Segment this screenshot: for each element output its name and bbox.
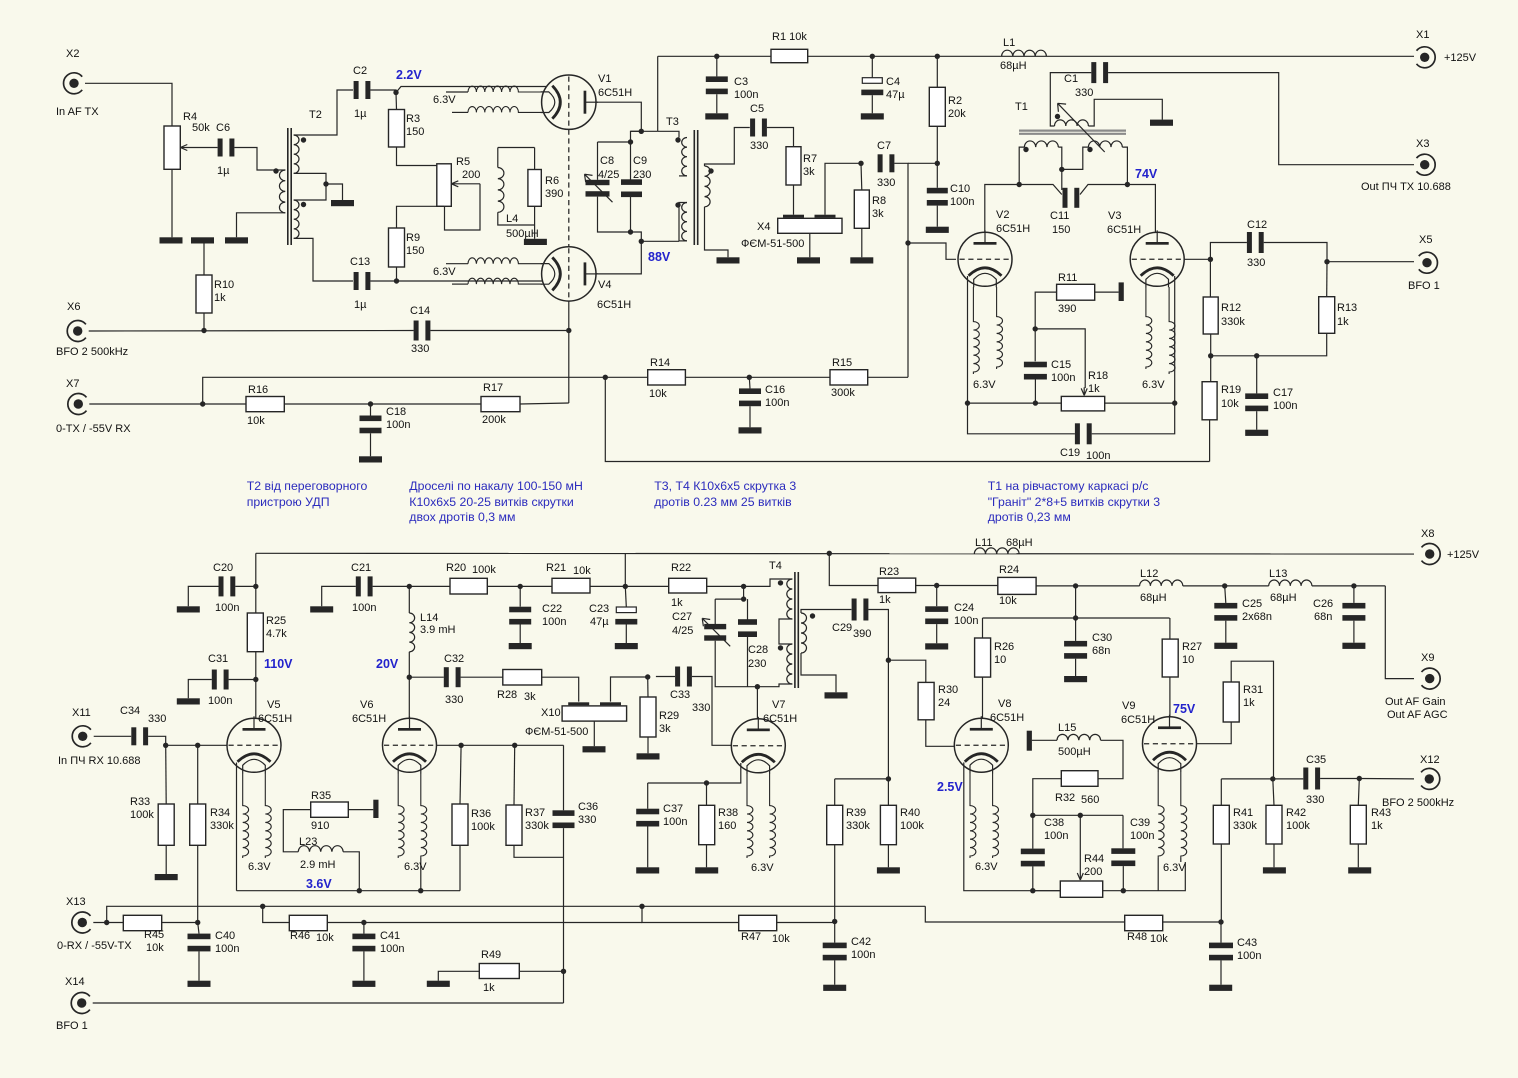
wire long bottom line	[605, 377, 1209, 461]
wire C36 bottom to X14 bus	[563, 828, 565, 1003]
wire X14 bus	[93, 1002, 564, 1004]
capacitor C19	[1075, 423, 1092, 444]
wire C25 to ground	[1225, 621, 1227, 643]
junction rail R2	[935, 54, 940, 59]
junction C17 top	[1254, 353, 1259, 358]
svg-text:C11: C11	[1050, 210, 1069, 222]
wire C7 right down to R15	[894, 163, 908, 377]
ground R49	[427, 981, 450, 987]
ground R40	[877, 867, 900, 873]
junction C30	[1073, 615, 1078, 620]
capacitor C11	[1063, 188, 1080, 208]
ground C25	[1214, 643, 1237, 649]
svg-text:R43: R43	[1371, 807, 1391, 819]
junction cathode rail left	[965, 400, 970, 405]
svg-text:C33: C33	[670, 689, 690, 701]
wire T2 sec upper bottom to tap	[294, 173, 326, 184]
inductor L14	[409, 613, 414, 652]
wire node to R20	[409, 585, 450, 587]
svg-text:2.5V: 2.5V	[937, 780, 963, 794]
svg-text:V3: V3	[1108, 210, 1121, 222]
wire T4 left windings series link	[779, 619, 792, 644]
svg-text:"Граніт" 2*8+5 витків скрутки: "Граніт" 2*8+5 витків скрутки 3	[988, 495, 1161, 509]
junction R37 top	[512, 743, 517, 748]
wire node A to T3 top	[631, 131, 658, 142]
junction R33 top	[163, 743, 168, 748]
svg-text:230: 230	[748, 658, 766, 670]
wire C38/R44/C39 top rail	[1033, 814, 1123, 816]
capacitor C10	[927, 188, 948, 206]
ground C41	[352, 981, 375, 987]
triode V3 (6C51H)	[1130, 230, 1184, 287]
wire T2 primary top lead	[272, 169, 285, 171]
svg-text:1k: 1k	[1088, 383, 1100, 395]
wire rail to C3	[716, 56, 718, 76]
wire T4 right bottom to ground	[801, 653, 836, 692]
svg-text:200: 200	[1084, 866, 1102, 878]
svg-text:R36: R36	[471, 808, 491, 820]
svg-text:2.9 mH: 2.9 mH	[300, 859, 336, 871]
wire to C25	[1225, 586, 1226, 603]
wire node to R29	[647, 677, 649, 697]
wiper arrow R4	[180, 145, 217, 151]
svg-text:330: 330	[1306, 794, 1324, 806]
junction V6 heater bus	[418, 888, 423, 893]
wire C14 to grid line	[430, 330, 568, 332]
svg-text:10k: 10k	[146, 942, 164, 954]
inductor L15	[1057, 734, 1101, 740]
svg-text:R28: R28	[497, 689, 517, 701]
svg-text:R16: R16	[248, 384, 268, 396]
svg-text:C22: C22	[542, 603, 562, 615]
wire node to C16	[748, 377, 751, 388]
svg-text:100n: 100n	[950, 196, 974, 208]
svg-text:100n: 100n	[1044, 830, 1068, 842]
junction C27/C28 top	[741, 596, 746, 601]
svg-text:330k: 330k	[1221, 316, 1245, 328]
svg-text:10k: 10k	[772, 933, 790, 945]
wire line to R27	[1169, 618, 1171, 639]
wire R48 to node	[1163, 921, 1221, 923]
wire C40 to ground	[198, 951, 200, 980]
svg-text:3k: 3k	[524, 691, 536, 703]
capacitor C41	[352, 934, 375, 952]
junction C24	[934, 583, 939, 588]
svg-text:4/25: 4/25	[672, 625, 693, 637]
svg-text:110V: 110V	[264, 657, 293, 671]
svg-text:C3: C3	[734, 76, 748, 88]
wire rail to C11 left	[1019, 185, 1062, 195]
wire V3 grid out	[1185, 258, 1211, 260]
resistor R13	[1319, 297, 1335, 334]
junction C7/R8	[858, 161, 863, 166]
junction R49 node	[561, 969, 566, 974]
wire R13 bottom link	[1211, 333, 1327, 356]
junction C32	[407, 675, 412, 680]
wire L14 node to C32	[409, 676, 444, 678]
svg-text:пристрою УДП: пристрою УДП	[247, 495, 330, 509]
capacitor C33	[675, 667, 692, 687]
wire R32 left down	[1033, 779, 1062, 816]
svg-text:C9: C9	[633, 155, 647, 167]
T3 lower-left winding	[682, 203, 687, 241]
inductor L13	[1269, 580, 1312, 586]
capacitor C36	[553, 810, 575, 828]
wire C30 to ground	[1075, 659, 1077, 676]
svg-text:L1: L1	[1003, 37, 1015, 49]
wire C27 bottom rail	[715, 641, 757, 687]
wire node to R13	[1326, 262, 1328, 297]
wiper arrow R18	[1081, 387, 1087, 395]
svg-text:R25: R25	[266, 615, 286, 627]
svg-text:R44: R44	[1084, 853, 1104, 865]
wire to C38	[1032, 815, 1034, 848]
resistor R11	[1057, 284, 1095, 300]
wire V8 cathode to 2.5V bus	[964, 762, 1061, 890]
wire C22 to ground	[519, 625, 521, 644]
wire to R37	[513, 745, 516, 805]
svg-text:R31: R31	[1243, 684, 1263, 696]
svg-text:C7: C7	[877, 140, 891, 152]
ground C43	[1209, 985, 1232, 991]
svg-text:330: 330	[411, 343, 429, 355]
capacitor C37	[636, 809, 659, 827]
svg-text:100n: 100n	[1130, 830, 1154, 842]
junction T1 center tap	[1059, 167, 1064, 172]
svg-text:C42: C42	[851, 936, 871, 948]
svg-text:R2: R2	[948, 95, 962, 107]
connector X1	[1417, 47, 1436, 68]
transformer T1 core	[1019, 131, 1126, 134]
svg-text:4.7k: 4.7k	[266, 628, 287, 640]
triode V1 (6C51H)	[541, 75, 598, 129]
svg-text:3k: 3k	[872, 208, 884, 220]
junction R10 bottom	[201, 328, 206, 333]
phase dot T4 lower	[778, 645, 783, 650]
wire R2 bottom	[936, 126, 938, 163]
svg-text:In ПЧ RX 10.688: In ПЧ RX 10.688	[58, 755, 141, 767]
svg-text:1µ: 1µ	[217, 165, 230, 177]
wire to R18 wiper	[1035, 329, 1085, 388]
wire to C41	[363, 923, 365, 934]
wire R28 to X10	[542, 677, 579, 701]
svg-text:560: 560	[1081, 794, 1099, 806]
svg-text:T1: T1	[1015, 101, 1028, 113]
phase dot T2 primary	[273, 168, 278, 173]
ground C22	[509, 643, 532, 649]
wire R46 to C41	[327, 922, 364, 924]
svg-text:10: 10	[994, 654, 1006, 666]
svg-text:390: 390	[1058, 303, 1076, 315]
svg-text:X3: X3	[1416, 138, 1429, 150]
wire V2 plate rail	[985, 185, 1019, 233]
svg-text:C36: C36	[578, 801, 598, 813]
junction C38 top	[1030, 813, 1035, 818]
svg-text:330: 330	[1075, 87, 1093, 99]
wire C2 to node	[370, 90, 396, 93]
svg-text:230: 230	[633, 169, 651, 181]
svg-text:BFO 1: BFO 1	[56, 1020, 88, 1032]
heater stub V1 bottom	[452, 111, 468, 113]
svg-text:Т1 на рівчастому каркасі р/с: Т1 на рівчастому каркасі р/с	[988, 479, 1149, 493]
svg-text:+125V: +125V	[1447, 549, 1480, 561]
junction R42/R31	[1270, 776, 1275, 781]
svg-text:100n: 100n	[215, 602, 239, 614]
svg-text:R7: R7	[803, 153, 817, 165]
wire C35 to X12 node	[1320, 778, 1359, 780]
wire T4 node to cap rail	[743, 586, 745, 599]
resistor R26	[975, 638, 991, 677]
svg-text:R1 10k: R1 10k	[772, 31, 807, 43]
resistor R31	[1223, 682, 1239, 722]
svg-text:1k: 1k	[483, 982, 495, 994]
resistor R18 (pot)	[1061, 396, 1104, 411]
wire C8/C9 top rail	[598, 141, 631, 143]
capacitor C28	[738, 619, 757, 637]
triode V8 (6C51H)	[954, 716, 1008, 773]
svg-text:R12: R12	[1221, 302, 1241, 314]
svg-text:68µH: 68µH	[1270, 592, 1297, 604]
ground C40	[188, 981, 211, 987]
phase dot T4 upper	[778, 580, 783, 585]
wire C31 to node	[229, 679, 256, 681]
svg-text:100k: 100k	[130, 809, 154, 821]
ground C31	[177, 698, 200, 704]
wire R49 left to ground	[438, 971, 479, 980]
junction 2.2V node	[393, 90, 398, 95]
svg-text:R19: R19	[1221, 384, 1241, 396]
svg-text:100n: 100n	[380, 943, 404, 955]
svg-text:100k: 100k	[1286, 820, 1310, 832]
wire R38 to ground	[706, 845, 708, 868]
resistor R14	[648, 370, 686, 385]
svg-text:330: 330	[148, 713, 166, 725]
resistor R22	[669, 578, 707, 593]
resistor R35	[311, 802, 349, 817]
resistor R2	[929, 87, 945, 126]
svg-text:T4: T4	[769, 560, 782, 572]
wire L15 to R32	[1098, 740, 1123, 778]
wire R9 bottom	[396, 267, 398, 281]
junction T2 center tap	[323, 181, 328, 186]
svg-text:100n: 100n	[1051, 372, 1075, 384]
wire rail to C4	[871, 56, 873, 77]
wire V9 heater left down	[1157, 858, 1159, 891]
wire L14 to V6 plate	[408, 652, 410, 719]
wire tap down to C11 node	[1061, 169, 1063, 190]
junction C21/L14	[407, 584, 412, 589]
wire node to L12	[1076, 585, 1140, 587]
wire node to R8	[860, 163, 863, 190]
ground C10	[926, 227, 949, 233]
wire R42 to ground	[1273, 844, 1275, 867]
wire rail drop to T3/V1 node	[657, 56, 659, 131]
svg-text:BFO 1: BFO 1	[1408, 280, 1440, 292]
triode V5 (6C51H)	[227, 716, 281, 773]
contact bar near V8	[1027, 731, 1032, 751]
svg-text:6.3V: 6.3V	[433, 94, 456, 106]
svg-text:330: 330	[692, 702, 710, 714]
svg-text:68n: 68n	[1314, 611, 1332, 623]
wire bus to V9 heater right	[1123, 862, 1185, 891]
wire riser to bias line	[203, 377, 569, 404]
resistor R4 (pot)	[164, 126, 180, 169]
svg-text:1k: 1k	[214, 292, 226, 304]
resistor R3	[389, 110, 405, 148]
capacitor C14	[414, 321, 431, 341]
svg-text:6C51H: 6C51H	[763, 713, 797, 725]
wire cathode rail right part	[1105, 402, 1175, 404]
svg-text:75V: 75V	[1173, 702, 1196, 716]
connector X11	[72, 726, 91, 747]
resistor R6	[528, 170, 541, 207]
junction C15 rail	[1033, 400, 1038, 405]
svg-text:L11: L11	[975, 537, 993, 549]
wire C8 bottom rail	[598, 197, 631, 232]
svg-text:V1: V1	[598, 73, 611, 85]
svg-text:6C51H: 6C51H	[1121, 714, 1155, 726]
heater lead V8 right	[993, 773, 999, 858]
junction C41	[361, 920, 366, 925]
wire to R41	[1220, 779, 1222, 805]
wire X2 to R4	[85, 83, 172, 126]
svg-text:R41: R41	[1233, 807, 1253, 819]
junction R46 riser	[260, 904, 265, 909]
ground R4	[160, 237, 183, 243]
svg-text:1k: 1k	[1371, 820, 1383, 832]
svg-text:68µH: 68µH	[1006, 537, 1033, 549]
connector X8	[1422, 544, 1441, 565]
resistor R28	[503, 670, 542, 686]
svg-text:C43: C43	[1237, 937, 1257, 949]
svg-text:C18: C18	[386, 406, 406, 418]
capacitor C30	[1064, 641, 1087, 659]
junction rail C3	[714, 54, 719, 59]
svg-text:T3: T3	[666, 116, 679, 128]
junction V2 grid feed	[905, 240, 910, 245]
wire R35/L23 left link	[283, 810, 310, 852]
resistor R23	[878, 578, 916, 593]
wire R15 right	[868, 376, 908, 378]
svg-text:X5: X5	[1419, 234, 1432, 246]
svg-text:R30: R30	[938, 684, 958, 696]
svg-text:C41: C41	[380, 930, 400, 942]
resistor R15	[830, 370, 868, 385]
ground T2 tap	[331, 200, 354, 206]
svg-text:10k: 10k	[573, 565, 591, 577]
svg-text:47µ: 47µ	[886, 89, 905, 101]
wire R29 to ground	[647, 737, 649, 753]
ground C24	[925, 643, 948, 649]
wire to R34	[197, 745, 199, 804]
svg-text:100n: 100n	[215, 943, 239, 955]
T1 secondary left winding	[1024, 141, 1058, 147]
wire T3 right top to C5	[705, 128, 750, 167]
junction node A	[639, 129, 644, 134]
ground T1 primary	[1150, 120, 1173, 126]
svg-text:T2: T2	[309, 109, 322, 121]
wire R44 right	[1103, 890, 1124, 892]
wire T4 lower bottom to V7 plate node	[757, 684, 792, 687]
svg-text:X6: X6	[67, 301, 80, 313]
wire to C40	[198, 923, 199, 934]
wire X13 to R45	[93, 922, 123, 924]
resistor R17	[481, 397, 520, 412]
svg-text:160: 160	[718, 820, 736, 832]
wire to T3 upper winding top	[658, 131, 679, 137]
junction R47 riser	[639, 904, 644, 909]
svg-text:300k: 300k	[831, 387, 855, 399]
ground T3 right	[717, 257, 740, 263]
resistor R44	[1060, 881, 1102, 897]
svg-text:X1: X1	[1416, 29, 1429, 41]
triode V6 (6C51H)	[383, 716, 437, 773]
wire C33 to V7 grid	[692, 677, 732, 746]
svg-text:10: 10	[1182, 654, 1194, 666]
svg-text:X4: X4	[757, 221, 770, 233]
resistor R7	[786, 147, 801, 185]
ground R33	[155, 874, 178, 880]
resistor R49	[479, 964, 519, 979]
svg-text:330: 330	[445, 694, 463, 706]
wire C32 to R28	[461, 676, 503, 678]
wire T2 sec lower top to tap	[294, 184, 326, 200]
junction R12/R13/R19	[1208, 353, 1213, 358]
junction L23 bus	[357, 888, 362, 893]
svg-text:6C51H: 6C51H	[598, 87, 632, 99]
svg-text:R46: R46	[290, 930, 310, 942]
ground C20	[177, 606, 200, 612]
heater lead V7 left	[747, 774, 753, 859]
resistor R33	[158, 804, 174, 845]
wire R35 to bar	[348, 809, 373, 811]
svg-text:Дроселі по накалу 100-150 мН: Дроселі по накалу 100-150 мН	[409, 479, 583, 493]
wire C20 left to ground	[188, 586, 218, 606]
connector X9	[1422, 668, 1441, 689]
wire X10 right to R29/C33	[611, 677, 648, 702]
heater stub V6 right to bus	[420, 858, 422, 891]
svg-text:390: 390	[853, 628, 871, 640]
wire bus up to R36	[459, 845, 461, 890]
svg-text:L14: L14	[420, 612, 438, 624]
wire X4 to ground	[809, 233, 811, 257]
resistor R47	[739, 915, 777, 930]
capacitor C18	[360, 416, 382, 434]
svg-text:10k: 10k	[1221, 398, 1239, 410]
wire node to R38	[706, 783, 708, 805]
svg-text:C25: C25	[1242, 598, 1262, 610]
svg-text:100n: 100n	[734, 89, 758, 101]
wire A-B link	[631, 130, 642, 132]
wire node to C15	[1034, 329, 1036, 361]
svg-text:3.9 mH: 3.9 mH	[420, 624, 456, 636]
phase dot T2 sec upper	[301, 137, 306, 142]
junction C16	[747, 375, 752, 380]
wire L4-R6 top rail	[498, 147, 535, 149]
svg-text:200: 200	[462, 169, 480, 181]
wire R21 to R22	[590, 585, 669, 587]
svg-text:C24: C24	[954, 602, 974, 614]
resistor R9	[389, 228, 405, 267]
svg-text:C1: C1	[1064, 73, 1078, 85]
capacitor C8 (variable)	[585, 174, 613, 202]
svg-text:V2: V2	[996, 209, 1009, 221]
wire T2 sec upper to C2	[294, 90, 353, 135]
wire to C26	[1353, 586, 1355, 603]
junction R39/C42	[832, 919, 837, 924]
svg-text:V4: V4	[598, 279, 611, 291]
wire node to C43	[1220, 922, 1222, 943]
